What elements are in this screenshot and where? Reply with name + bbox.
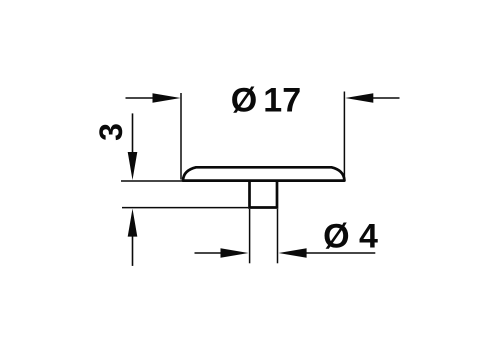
arrowhead Ø4 left (points right) — [221, 248, 249, 258]
cap outline (cover cap cross-section, flat top, rounded corners) — [183, 167, 344, 180]
arrowhead Ø17 left (points right) — [153, 93, 181, 103]
extension line stem right (for dim Ø4) — [277, 209, 279, 263]
dimension line 3 upper segment — [132, 113, 134, 153]
svg-text:Ø 4: Ø 4 — [323, 218, 378, 256]
dimension line Ø4 right segment — [307, 252, 376, 254]
extension line left of Ø17 — [180, 93, 182, 180]
arrowhead Ø17 right (points left) — [345, 93, 373, 103]
dimension line Ø17 right segment — [372, 97, 400, 99]
svg-text:Ø: Ø — [231, 82, 257, 120]
dimension line Ø17 left segment — [126, 97, 155, 99]
extension line stem left (for dim Ø4) — [249, 209, 251, 263]
extension line cap underside (for dim 3) — [121, 180, 184, 182]
arrowhead 3 upper (points down) — [128, 152, 138, 180]
arrowhead 3 lower (points up) — [128, 209, 138, 237]
stem (spigot below cap) — [250, 181, 278, 208]
svg-text:3: 3 — [93, 123, 129, 141]
extension line stem bottom (for dim 3) — [122, 207, 248, 209]
extension line right of Ø17 — [343, 92, 345, 180]
svg-text:17: 17 — [263, 82, 301, 120]
dimension line 3 lower segment — [132, 236, 134, 266]
dimension line Ø4 left segment — [195, 252, 222, 254]
arrowhead Ø4 right (points left) — [279, 248, 307, 258]
